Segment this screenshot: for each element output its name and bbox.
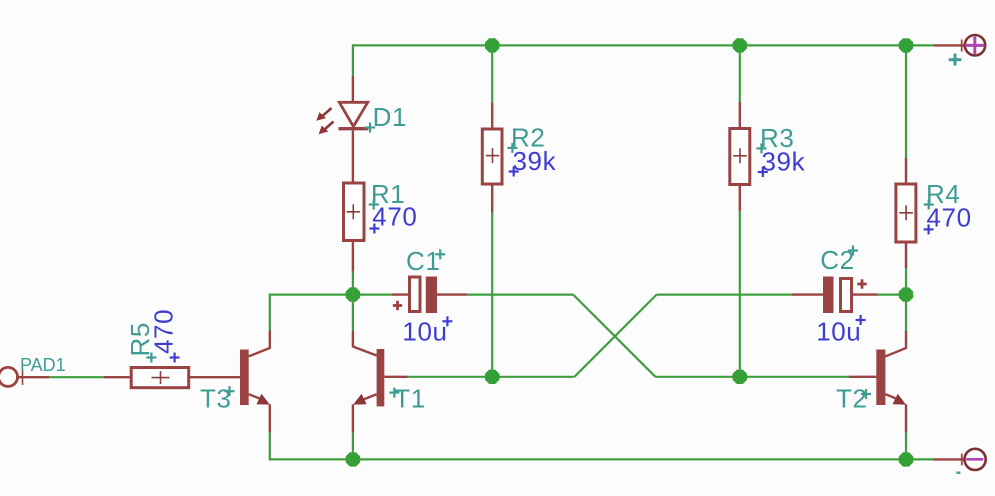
LED anode pin [352, 76, 354, 103]
wire C2 right to R4 node [877, 294, 906, 296]
resistor R3 origin cross [733, 155, 747, 157]
junction ground rail at T2 [899, 452, 913, 466]
label C1 name cross [435, 253, 445, 255]
svg-text:470: 470 [149, 309, 179, 354]
label C2 value cross [856, 319, 866, 321]
wire R3 column upper [739, 45, 741, 102]
transistor T2 emitter line [885, 394, 898, 399]
label R4 name cross [924, 203, 934, 205]
net label plus [949, 58, 962, 61]
supply pin wire [934, 44, 965, 46]
transistor T2 base bar [876, 350, 885, 406]
junction ground rail at T1 [346, 452, 360, 466]
label R2 value cross [509, 170, 519, 172]
transistor T1 collector line [353, 346, 377, 355]
wire R4 bottom to C2 node and T2 collector [905, 268, 907, 331]
transistor T1 base bar [377, 349, 385, 406]
junction T2 base node [733, 370, 747, 384]
resistor R2 top pin [491, 103, 493, 129]
junction C1 left node [346, 287, 360, 301]
capacitor C2 right pin [852, 293, 878, 295]
pad PAD1 pin tick [22, 369, 24, 385]
ground pin tick [961, 454, 963, 466]
transistor T3 emitter line [249, 394, 262, 399]
resistor R2 body [482, 129, 502, 184]
transistor T2 emitter arrowhead [893, 394, 906, 405]
resistor R1 origin cross [347, 211, 361, 213]
transistor T1 base pin [384, 376, 407, 378]
ground pin wire [934, 458, 965, 460]
transistor T3 emitter arrowhead [256, 394, 269, 405]
supply pin tick [961, 40, 963, 52]
resistor R2 bottom pin [491, 184, 493, 213]
wire crossover diagonal down [573, 295, 655, 377]
resistor R5 body [131, 368, 189, 388]
svg-text:PAD1: PAD1 [20, 355, 66, 375]
label T1 origin cross [389, 392, 399, 394]
wire R2 column lower to T1 base node [491, 213, 493, 377]
junction C2 right node [899, 287, 913, 301]
transistor T3 emitter pin [269, 404, 271, 432]
resistor R5 left pin [104, 376, 131, 378]
pad PAD1 pin [18, 376, 50, 378]
wire bottom ground rail [270, 458, 934, 460]
capacitor C1 polarity plus [393, 304, 402, 307]
capacitor C1 right plate filled [426, 277, 437, 314]
svg-text:39k: 39k [762, 147, 806, 177]
wire T2 emitter to ground rail [905, 433, 907, 460]
label R5 value cross [170, 356, 180, 358]
resistor R4 origin cross [899, 212, 913, 214]
svg-text:470: 470 [927, 203, 972, 233]
junction T1 base node [485, 370, 499, 384]
transistor T1 emitter arrowhead [353, 394, 366, 405]
LED light arrow 1 [321, 108, 332, 117]
capacitor C1 left pin [392, 293, 410, 295]
resistor R4 bottom pin [905, 242, 907, 268]
transistor T1 emitter line [364, 394, 377, 399]
label R4 value cross [924, 228, 934, 230]
capacitor C2 left plate filled [823, 277, 834, 314]
net label minus [956, 472, 960, 474]
transistor T2 collector line [885, 348, 906, 357]
transistor T3 collector pin [269, 331, 271, 349]
wire node row C1 left [270, 294, 392, 296]
supply symbol circle [965, 35, 985, 55]
junction top rail at R4 [899, 38, 913, 52]
LED D1 triangle [339, 102, 367, 126]
svg-text:C1: C1 [406, 246, 440, 276]
junction top rail at R3 [733, 38, 747, 52]
svg-text:10u: 10u [402, 317, 447, 347]
label C2 name cross [848, 249, 858, 251]
wire top rail VCC [353, 44, 934, 46]
resistor R2 origin cross [486, 155, 500, 157]
resistor R4 body [896, 184, 916, 242]
svg-text:D1: D1 [373, 102, 407, 132]
transistor T3 collector line [249, 348, 271, 357]
capacitor C2 left pin [792, 293, 823, 295]
transistor T1 collector pin [352, 331, 354, 347]
capacitor C1 left plate hollow [410, 277, 421, 312]
label C1 value cross [442, 320, 452, 322]
label R1 value cross [369, 227, 379, 229]
LED D1 cathode bar [339, 127, 369, 130]
resistor R3 top pin [739, 102, 741, 129]
wire V+ column D1/R1 top [352, 44, 354, 75]
resistor R3 bottom pin [739, 185, 741, 212]
label R2 name cross [507, 147, 517, 149]
transistor T2 base pin [849, 376, 876, 378]
capacitor C1 right pin [437, 293, 467, 295]
wire crossover diagonal up [574, 295, 656, 377]
wire R1 to node [352, 272, 354, 296]
svg-text:39k: 39k [513, 146, 557, 176]
capacitor C2 polarity plus [857, 283, 866, 286]
wire C1 right to crossover [467, 294, 573, 296]
label T3 origin cross [225, 390, 235, 392]
label R1 name cross [369, 203, 379, 205]
resistor R4 top pin [905, 158, 907, 184]
wire T1 emitter to ground rail [352, 433, 354, 460]
wire R4 column upper [905, 45, 907, 158]
pad PAD1 circle [0, 367, 18, 386]
ground symbol circle [965, 449, 986, 470]
resistor R5 origin cross [152, 377, 170, 379]
transistor T3 base bar [240, 350, 249, 406]
svg-text:470: 470 [372, 202, 417, 232]
resistor R1 bottom pin [352, 241, 354, 272]
label D1 origin cross [365, 126, 375, 128]
svg-text:T3: T3 [200, 384, 232, 414]
junction top rail at R2 [485, 38, 499, 52]
label T2 origin cross [861, 393, 871, 395]
wire T1 collector vertical [352, 294, 354, 332]
wire PAD1 to R5 [49, 376, 104, 378]
wire T3 emitter to ground rail [269, 433, 271, 461]
svg-text:T1: T1 [394, 384, 426, 414]
label R3 name cross [757, 147, 767, 149]
label R3 value cross [758, 171, 768, 173]
svg-text:T2: T2 [836, 384, 868, 414]
LED light arrow 2 [323, 122, 334, 131]
wire R2 column upper [491, 45, 493, 102]
label R5 name cross [146, 356, 156, 358]
supply plus cross magenta [965, 44, 984, 47]
transistor T1 emitter pin [352, 404, 354, 432]
wire R3 column lower to T2 base node [739, 211, 741, 377]
LED cathode pin to R1 [352, 130, 354, 183]
svg-text:10u: 10u [816, 317, 861, 347]
resistor R5 right pin to T3 base [189, 376, 240, 378]
wire crossover upper right to C2 [657, 294, 792, 296]
resistor R3 body [730, 129, 750, 185]
transistor T2 collector pin [905, 331, 907, 349]
transistor T2 emitter pin [905, 404, 907, 432]
capacitor C2 right plate hollow [841, 279, 852, 312]
wire T3 collector vertical [269, 294, 271, 332]
wire crossover lower right to T2 base [655, 376, 849, 378]
ground minus bar magenta [966, 458, 983, 461]
wire T1 base to crossover [408, 376, 575, 378]
resistor R1 body [344, 183, 365, 241]
